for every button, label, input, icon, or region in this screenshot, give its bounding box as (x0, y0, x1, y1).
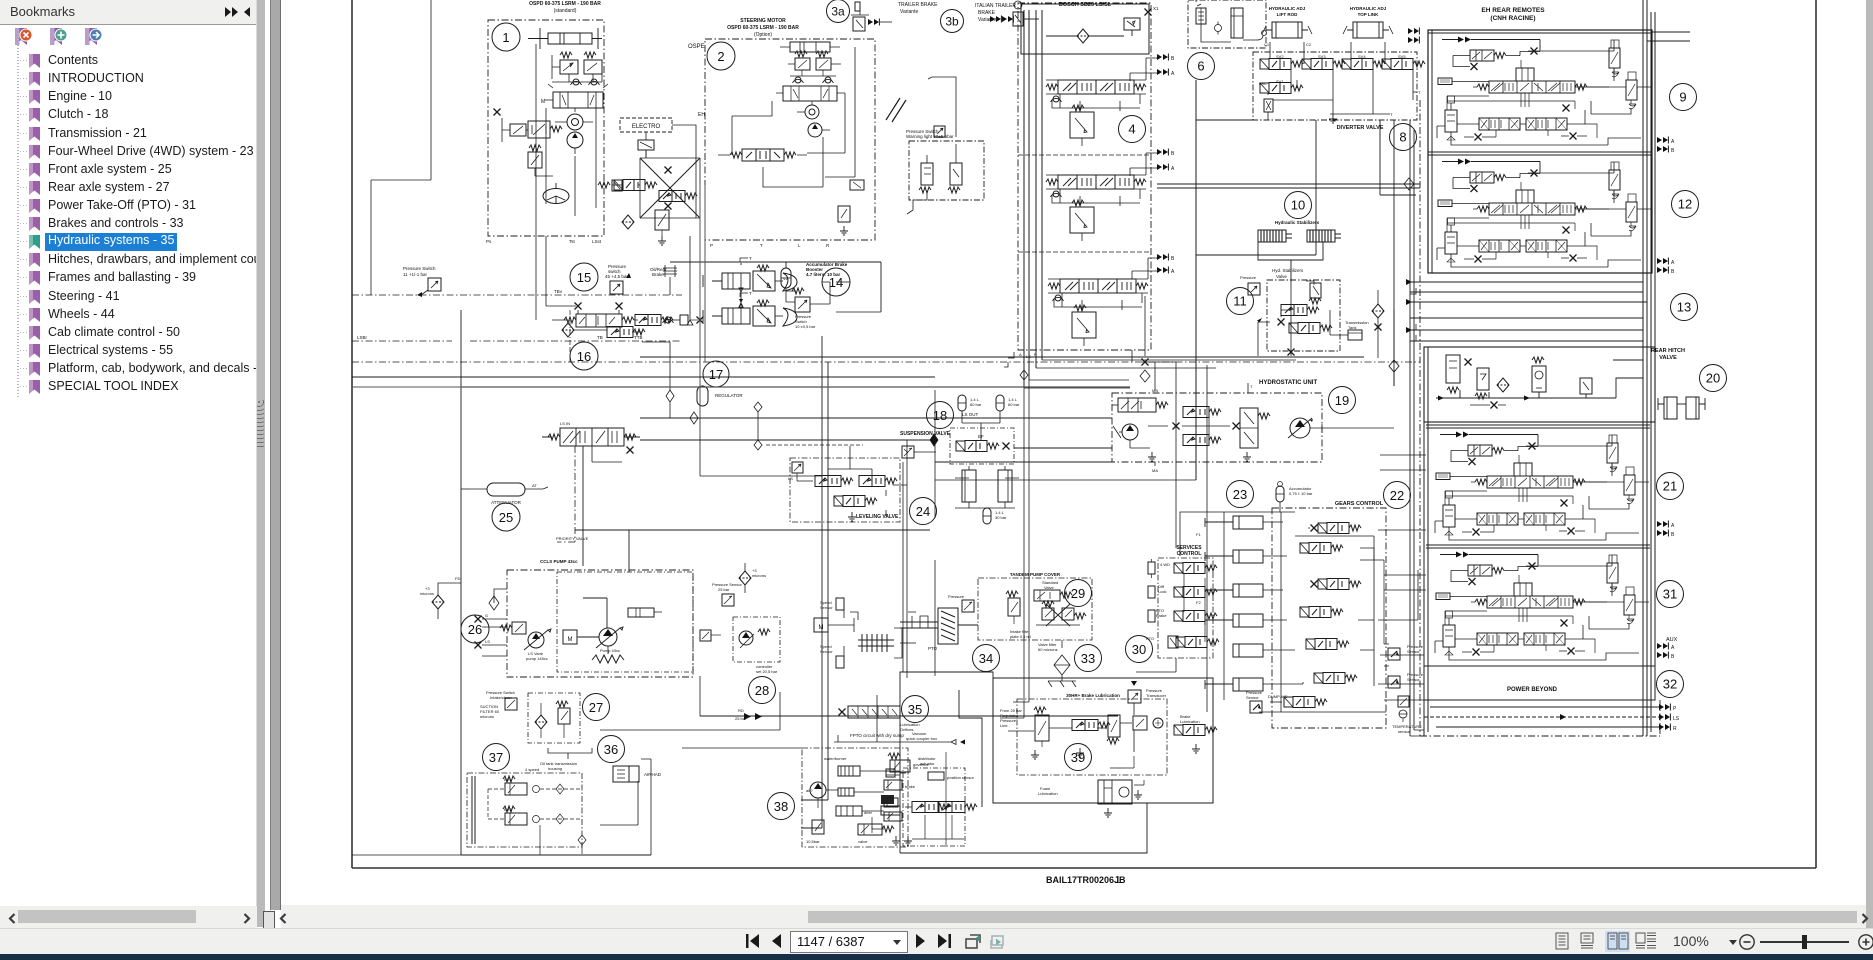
svg-text:GEARS CONTROL: GEARS CONTROL (1335, 501, 1384, 507)
svg-text:38: 38 (774, 799, 788, 814)
svg-text:14: 14 (829, 275, 843, 290)
pump P4 variable displacement (1288, 418, 1322, 438)
svg-text:OSPD 60-375 LSRM - 190 BAR: OSPD 60-375 LSRM - 190 BAR (727, 25, 799, 31)
outer solid box (993, 678, 1213, 803)
stack-to-right-column bus pair (1157, 184, 1420, 188)
svg-text:8: 8 (1399, 130, 1406, 145)
svg-text:4 WD: 4 WD (1160, 562, 1170, 567)
governor (888, 753, 929, 772)
svg-text:28: 28 (755, 683, 769, 698)
hitch cylinders (1658, 397, 1705, 419)
svg-text:20: 20 (1706, 371, 1720, 386)
svg-text:sensor: sensor (1398, 729, 1411, 734)
accumulators (958, 395, 982, 411)
right small valve (659, 191, 697, 202)
BLOCK 37 (483, 744, 510, 771)
svg-text:15: 15 (577, 270, 591, 285)
svg-text:T: T (749, 256, 752, 261)
bottom pump/motor (1098, 780, 1144, 804)
svg-text:Pressure: Pressure (1240, 275, 1257, 280)
svg-text:B: B (1171, 56, 1175, 62)
svg-text:Valve: Valve (1044, 585, 1054, 590)
remote section 1 (1428, 30, 1652, 145)
valve V4 priority spool (542, 428, 640, 462)
stabilizer valve box (1267, 280, 1340, 351)
3a valve bits (851, 2, 892, 31)
svg-text:26: 26 (468, 622, 482, 637)
svg-text:LIFT ROD: LIFT ROD (1277, 12, 1298, 17)
left relief spool (1112, 398, 1168, 412)
svg-text:11: 11 (1233, 294, 1247, 309)
oil tank bracket (548, 748, 592, 753)
svg-text:ATTENUATOR: ATTENUATOR (491, 500, 522, 505)
solenoid under electro (638, 140, 654, 158)
svg-text:P: P (710, 243, 713, 248)
svg-text:set 20,5 bar: set 20,5 bar (756, 669, 778, 674)
svg-text:Transducer: Transducer (1146, 693, 1167, 698)
circle 13 (1671, 294, 1698, 321)
svg-text:microns: microns (480, 714, 494, 719)
svg-text:(standard): (standard) (554, 8, 577, 14)
svg-text:27: 27 (589, 700, 603, 715)
top cylinder (628, 608, 654, 617)
left long vertical (461, 310, 651, 855)
FPTO + speed sensors (814, 598, 920, 738)
svg-text:32: 32 (1663, 677, 1677, 692)
svg-text:Valve: Valve (1276, 274, 1287, 279)
prev view (966, 935, 980, 948)
svg-text:Hyd. Stabilizers: Hyd. Stabilizers (1272, 268, 1304, 273)
svg-text:water/burner: water/burner (824, 756, 847, 761)
svg-text:valve: valve (858, 839, 868, 844)
svg-text:10,5bar: 10,5bar (806, 839, 820, 844)
top cylinder (780, 42, 840, 52)
relief (1310, 283, 1321, 298)
master cylinder 1 with pedal (703, 256, 797, 291)
svg-text:A: A (1171, 71, 1175, 77)
svg-text:21: 21 (1663, 479, 1677, 494)
svg-text:11 +1/-1 bar: 11 +1/-1 bar (403, 272, 428, 277)
svg-text:25: 25 (499, 510, 513, 525)
ports A/B sec1 (1657, 137, 1668, 144)
relief spools (884, 780, 916, 790)
svg-text:P: P (1034, 352, 1037, 357)
circle 12 (1672, 191, 1699, 218)
svg-text:Pressure: Pressure (948, 594, 965, 599)
svg-text:3b: 3b (945, 15, 959, 29)
svg-text:M: M (568, 637, 573, 643)
components (1031, 707, 1049, 759)
four solenoid valves (1260, 59, 1303, 70)
svg-text:SV2: SV2 (1276, 54, 1284, 59)
svg-text:Tank: Tank (1348, 325, 1356, 330)
svg-text:TANDEM PUMP COVER: TANDEM PUMP COVER (1010, 572, 1061, 577)
compensator X pattern (1036, 601, 1086, 626)
svg-text:12: 12 (1678, 197, 1692, 212)
circle 6 (1188, 53, 1215, 80)
big spring (592, 655, 624, 663)
pressure sensor left (1248, 283, 1260, 295)
AIRHAD (613, 766, 662, 782)
svg-text:37: 37 (489, 750, 503, 765)
svg-text:ITALIAN TRAILER: ITALIAN TRAILER (975, 3, 1016, 9)
POWER BEYOND box (1424, 666, 1655, 700)
svg-text:Variante: Variante (978, 17, 996, 23)
circle 20 (1700, 365, 1727, 392)
svg-text:22: 22 (1390, 488, 1404, 503)
EF / LS feed right (935, 448, 1112, 462)
svg-text:Lubrication: Lubrication (1038, 791, 1058, 796)
svg-text:LS OUT: LS OUT (962, 412, 979, 417)
svg-text:T: T (1390, 112, 1393, 117)
svg-text:EH: EH (698, 112, 705, 118)
svg-text:1: 1 (502, 30, 509, 45)
svg-text:Tst: Tst (569, 239, 576, 244)
left sensor (902, 446, 936, 458)
pump P3 charge (1113, 424, 1150, 448)
section divider (1018, 154, 1151, 156)
svg-text:air?: air? (806, 788, 813, 793)
line from MC area to block 14 (670, 262, 881, 312)
svg-text:SV1: SV1 (1276, 79, 1284, 84)
svg-text:30HR+ Brake Lubrication: 30HR+ Brake Lubrication (1066, 693, 1120, 698)
filter (1264, 99, 1273, 112)
svg-text:B: B (1671, 654, 1675, 660)
svg-text:C2: C2 (1306, 42, 1312, 47)
svg-text:P: P (1673, 706, 1677, 712)
clutch pack (858, 628, 902, 658)
svg-text:(CNH RACINE): (CNH RACINE) (1490, 15, 1535, 22)
next view (disabled) (990, 936, 1003, 948)
circle 9 (1670, 84, 1697, 111)
svg-text:housing: housing (548, 766, 562, 771)
svg-text:LS: LS (788, 476, 793, 481)
LS OUT line (640, 417, 1112, 419)
block1 internal drop lines (536, 44, 596, 236)
svg-text:Warning light 60±5.5bar: Warning light 60±5.5bar (906, 134, 954, 139)
svg-text:TBv: TBv (554, 289, 563, 294)
svg-text:31: 31 (1663, 587, 1677, 602)
svg-text:2: 2 (717, 49, 724, 64)
thermal bypass + sensor right (700, 630, 721, 641)
svg-text:60 microns: 60 microns (1038, 647, 1058, 652)
P / LS / R ports (1659, 704, 1670, 711)
prev page (772, 934, 781, 948)
svg-text:B: B (1171, 151, 1175, 157)
svg-text:30 bar: 30 bar (995, 515, 1007, 520)
motor M1 gerotor (555, 108, 593, 154)
page frame (352, 0, 1816, 868)
right toolbar: page layout icons (1548, 931, 1658, 952)
EH left feed stubs (1380, 455, 1426, 700)
top port arrows (1408, 28, 1419, 35)
svg-text:0,75 l: 10 bar: 0,75 l: 10 bar (1289, 491, 1313, 496)
svg-text:Hydraulic Stabilizers: Hydraulic Stabilizers (1275, 220, 1320, 225)
port stubs left (475, 589, 508, 656)
services feed (1142, 362, 1176, 548)
svg-text:35: 35 (908, 702, 922, 717)
attenuator A1 (470, 483, 548, 505)
svg-text:Sensor: Sensor (1246, 695, 1259, 700)
next page (916, 934, 925, 948)
svg-text:A: A (1671, 260, 1675, 266)
suspension cylinders (955, 466, 1019, 524)
filter + x below right (1372, 304, 1384, 318)
pump P1 axial piston assembly (557, 572, 693, 672)
svg-text:M: M (541, 99, 545, 105)
svg-text:HYDROSTATIC UNIT: HYDROSTATIC UNIT (1259, 380, 1317, 386)
stabilizer cylinders (1258, 230, 1292, 242)
LS dashed long line (1424, 716, 1659, 718)
LSBR dashed vertical (569, 310, 571, 362)
long line y387 (461, 386, 1130, 388)
svg-text:quick coupler box: quick coupler box (906, 736, 937, 741)
italian trailer brake block (906, 77, 984, 214)
svg-text:F1: F1 (1196, 532, 1201, 537)
svg-text:23: 23 (1233, 487, 1247, 502)
svg-text:FPTO circuit with dry sump: FPTO circuit with dry sump (850, 733, 904, 738)
svg-text:EH REAR REMOTES: EH REAR REMOTES (1481, 7, 1545, 14)
small bits right (850, 180, 864, 190)
3b inline valve row (990, 1, 1039, 26)
right column wires of block2 (732, 93, 845, 187)
svg-text:60 bar: 60 bar (1008, 402, 1020, 407)
svg-text:TOP LINK: TOP LINK (1358, 12, 1380, 17)
svg-text:DIVERTER VALVE: DIVERTER VALVE (1337, 125, 1384, 131)
bus vertical lines (1024, 10, 1042, 388)
gray supply pair down center (801, 748, 822, 828)
svg-text:F2: F2 (1196, 600, 1201, 605)
filter top (420, 583, 461, 619)
svg-text:10 ±0,5 bar: 10 ±0,5 bar (795, 324, 816, 329)
last page (938, 934, 947, 948)
svg-text:Orifices: Orifices (900, 727, 914, 732)
svg-text:6: 6 (1197, 59, 1204, 74)
remote section 2 (1428, 152, 1652, 267)
svg-text:LSC: LSC (1259, 81, 1267, 86)
svg-text:A: A (1171, 166, 1175, 172)
svg-text:18: 18 (933, 408, 947, 423)
svg-text:ELECTRO: ELECTRO (632, 124, 661, 130)
filter top (739, 563, 766, 593)
svg-text:A: A (1671, 139, 1675, 145)
lower center valve (655, 210, 669, 245)
pilot relief (1006, 591, 1020, 624)
stack outer dash-dot box (1018, 3, 1151, 350)
svg-text:(Option): (Option) (754, 32, 772, 38)
svg-text:TRAILER BRAKE: TRAILER BRAKE (898, 2, 938, 8)
svg-text:19: 19 (1335, 393, 1349, 408)
svg-text:R: R (826, 243, 830, 248)
section 3 spool group (1048, 254, 1175, 347)
svg-text:BOSCH SB23 LS/SL: BOSCH SB23 LS/SL (1059, 2, 1112, 8)
svg-text:AT: AT (532, 483, 537, 488)
svg-text:AUX: AUX (1666, 637, 1678, 643)
svg-text:OSPD 60-375 LSRM - 190 BAR: OSPD 60-375 LSRM - 190 BAR (529, 1, 601, 7)
svg-text:24: 24 (916, 504, 930, 519)
center valves (1183, 407, 1221, 418)
svg-text:HYDRAULIC ADJ: HYDRAULIC ADJ (1350, 6, 1387, 11)
svg-text:9: 9 (1679, 90, 1686, 105)
svg-text:R: R (1673, 726, 1677, 732)
hitch valve components (1446, 355, 1460, 383)
main dash-dot cross line (352, 361, 1420, 363)
svg-text:Pressure Switch: Pressure Switch (403, 266, 436, 271)
long pressure line from pump up through page (583, 446, 607, 628)
filter + check row above priority (562, 323, 645, 338)
svg-text:Sensor: Sensor (820, 605, 833, 610)
svg-text:B: B (1671, 532, 1675, 538)
svg-text:Variante: Variante (900, 9, 918, 15)
valve V1 rotary control (541, 84, 608, 108)
circle 8 (1390, 124, 1417, 151)
master cylinder 2 with pedal (703, 291, 797, 326)
section 1 spool group (1046, 54, 1175, 147)
vertical pedal link (739, 263, 743, 307)
svg-text:Brake: Brake (652, 272, 664, 277)
transducer (1128, 681, 1167, 703)
left frame stubs (352, 386, 461, 388)
svg-text:POWER BEYOND: POWER BEYOND (1507, 687, 1558, 693)
left sensor (948, 594, 974, 612)
SUCTION FILTER 27 (480, 690, 580, 743)
EF line (640, 439, 935, 441)
25 bar out line (700, 715, 1118, 717)
svg-text:RD: RD (738, 708, 744, 713)
svg-text:FD: FD (455, 576, 460, 581)
svg-text:3a: 3a (831, 5, 845, 19)
svg-text:T: T (1418, 90, 1421, 95)
svg-text:position sensor: position sensor (947, 775, 975, 780)
svg-text:PRIORITY VALVE: PRIORITY VALVE (556, 536, 589, 541)
valve dash box (950, 428, 1014, 464)
pressure sensor above controller (712, 582, 742, 606)
svg-text:PTO: PTO (928, 646, 938, 651)
inlet block (1021, 4, 1159, 54)
long solid line y357 (640, 356, 1364, 358)
outer dash-dot boundary (1420, 100, 1660, 736)
motor M1 gerotor (797, 101, 830, 137)
svg-text:pump 145cc: pump 145cc (526, 656, 548, 661)
svg-text:60 bar: 60 bar (970, 402, 982, 407)
svg-text:STEERING MOTOR: STEERING MOTOR (740, 18, 786, 24)
mid gap horizontal lines (1410, 282, 1647, 341)
filter diamond (622, 215, 634, 229)
svg-text:SV4: SV4 (1358, 54, 1366, 59)
valve block outer frame (1428, 30, 1652, 273)
svg-text:4 speed: 4 speed (525, 767, 539, 772)
svg-text:LS IN: LS IN (560, 421, 570, 426)
gauge (1133, 716, 1163, 730)
right sensors (1388, 644, 1424, 660)
svg-text:B: B (1671, 269, 1675, 275)
lift rod cylinder symbol (1262, 22, 1312, 48)
circle 4 (1119, 116, 1146, 143)
svg-text:Pump 43cc: Pump 43cc (600, 648, 620, 653)
twin reliefs (788, 51, 841, 83)
svg-text:SV3: SV3 (1318, 54, 1326, 59)
EH spool (718, 149, 807, 161)
spools (1281, 305, 1319, 316)
svg-text:LSBr: LSBr (357, 335, 368, 340)
svg-text:Lock: Lock (1158, 589, 1166, 594)
vertical feed right of hydrostatic down to gears (1393, 120, 1395, 386)
svg-text:LS: LS (1673, 716, 1680, 722)
pressure switch 2 (795, 297, 810, 312)
tall valve (1240, 408, 1270, 448)
leadoff to suspension (935, 390, 1015, 518)
svg-text:Line: Line (1000, 723, 1008, 728)
svg-text:L: L (798, 243, 801, 248)
dash-dot boundaries (352, 294, 682, 296)
lubrication orifice row (839, 706, 901, 718)
cylinder C1 steering (528, 28, 602, 49)
svg-text:25 bar: 25 bar (718, 587, 730, 592)
line from stack bottom to hydrostatic (1029, 360, 1296, 380)
connections down from cylinders into valves (1270, 48, 1385, 64)
small valves right (635, 315, 673, 326)
gray vertical pair center (700, 185, 705, 418)
steering wheel W1 (543, 183, 569, 204)
svg-text:T: T (760, 243, 763, 248)
svg-text:microns: microns (420, 591, 434, 596)
trailer brake valve spool row (552, 303, 704, 328)
section divider 2 (1018, 251, 1151, 253)
valves V2 V3 shock/relief (552, 52, 602, 85)
svg-text:T: T (749, 291, 752, 296)
controller box (733, 617, 780, 674)
left long vertical + ground (371, 0, 431, 295)
svg-text:4: 4 (1128, 122, 1135, 137)
svg-text:DUMP-WS: DUMP-WS (1268, 694, 1288, 699)
svg-text:EV2: EV2 (504, 807, 512, 812)
svg-text:BRAKE: BRAKE (978, 10, 996, 16)
vertical feeders in gears box (1207, 365, 1386, 712)
svg-text:LEVELING VALVE: LEVELING VALVE (856, 514, 899, 520)
svg-text:Brake: Brake (1156, 613, 1167, 618)
svg-text:LS: LS (1026, 354, 1031, 359)
T drain (1329, 114, 1337, 123)
left valve pair (598, 180, 657, 192)
svg-text:plate 0,5 mi: plate 0,5 mi (1010, 634, 1031, 639)
REAR HITCH VALVE section (1424, 347, 1685, 422)
svg-text:B: B (1171, 256, 1175, 262)
dump valve (1268, 694, 1327, 708)
X + arrow above box (1140, 370, 1150, 382)
svg-text:REAR HITCH: REAR HITCH (1651, 348, 1685, 354)
svg-text:39: 39 (1071, 750, 1085, 765)
svg-text:Intake/clean: Intake/clean (490, 695, 512, 700)
svg-text:17: 17 (709, 367, 723, 382)
svg-text:13: 13 (1677, 300, 1691, 315)
svg-text:MB: MB (1152, 388, 1158, 393)
circle 11 (1227, 288, 1254, 315)
svg-text:AIRHAD: AIRHAD (644, 772, 662, 777)
ports A/B sec2 (1657, 258, 1668, 265)
svg-text:M: M (819, 625, 824, 631)
svg-text:10: 10 (1291, 198, 1305, 213)
svg-text:Ps: Ps (486, 239, 492, 244)
ELECTRO box (620, 118, 672, 132)
feed from midstack bus down-left (1000, 380, 1029, 718)
svg-text:B: B (1671, 148, 1675, 154)
right valve (1174, 714, 1217, 753)
CCLS pump dash box (507, 570, 693, 677)
BLOCK 38 air brakes (768, 793, 795, 820)
circle 3a (827, 0, 850, 23)
relief w spring (528, 145, 553, 176)
svg-text:36: 36 (604, 742, 618, 757)
